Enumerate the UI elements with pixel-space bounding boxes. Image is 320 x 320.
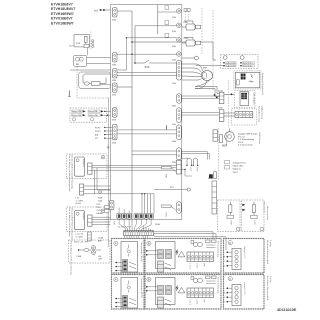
- edge connector y108-122: [177, 108, 182, 123]
- svg-text:B: B: [148, 242, 150, 246]
- wire into demand row2: [196, 65, 223, 67]
- dashed wire from contactor block down: [77, 64, 111, 99]
- svg-text:R2T: R2T: [189, 168, 191, 173]
- option row 2: [112, 275, 272, 310]
- svg-text:Nur für Anlage mit Normaltarif: Nur für Anlage mit Normaltarif: [68, 208, 71, 237]
- right edge circular connector X2A: [177, 23, 182, 28]
- wire with sensor circle y189.5: [154, 187, 190, 191]
- node on bus y42: [131, 41, 133, 43]
- svg-text:X3M: X3M: [112, 65, 116, 67]
- svg-text:X14A: X14A: [98, 237, 104, 240]
- svg-text:K6R: K6R: [165, 213, 167, 218]
- svg-text:Adapter: Adapter: [82, 159, 85, 167]
- svg-text:R8T: R8T: [196, 168, 198, 173]
- connector column below adapter1: [80, 184, 155, 214]
- svg-text:Kühlen X2M: Kühlen X2M: [72, 115, 82, 117]
- svg-text:1 G Steuerleitung: 1 G Steuerleitung: [238, 138, 255, 141]
- mains plug dashed block: [69, 240, 110, 276]
- svg-text:4 G Dauerstrom: 4 G Dauerstrom: [238, 144, 253, 147]
- svg-text:K1M: K1M: [76, 43, 80, 45]
- svg-text:1=Aus 2=Ein: 1=Aus 2=Ein: [226, 65, 236, 68]
- svg-text:K5R: K5R: [165, 174, 167, 179]
- small stub component x69 y91: [68, 91, 71, 97]
- transformer box TR1: [74, 55, 87, 66]
- svg-text:X7M: X7M: [112, 95, 116, 97]
- PE bus x108.3: [107, 98, 109, 247]
- edge connector y95: [177, 94, 182, 103]
- node bus y63: [134, 62, 136, 64]
- wire y25.8: [135, 25, 177, 27]
- relay block K3R dashed: [218, 200, 241, 232]
- svg-text:Nur für Anlage mit Reserveheiz: Nur für Anlage mit Reserveheizung: [70, 241, 73, 276]
- top plugs on dashed boundary: [184, 9, 187, 12]
- sensors R2T R8T: [181, 158, 198, 176]
- LAN adapter dashed block: [234, 91, 255, 108]
- wire thermostat row1 to bus: [104, 110, 111, 112]
- svg-text:F2U: F2U: [97, 207, 101, 209]
- component K5M right of board y37-49: [182, 38, 201, 47]
- svg-text:Netzanschluß Wärmepumpentarif: Netzanschluß Wärmepumpentarif: [71, 208, 74, 241]
- small black connector x209 y174: [209, 174, 213, 178]
- svg-text:K3R: K3R: [230, 221, 232, 226]
- svg-text:F1U: F1U: [97, 204, 101, 206]
- K1M contactor subcircuit top-left: [69, 32, 94, 56]
- svg-text:S1S: S1S: [145, 65, 150, 69]
- bus vertical x132: [131, 11, 133, 222]
- svg-text:P1/P2: P1/P2: [95, 131, 101, 133]
- svg-text:4D113210E: 4D113210E: [277, 308, 297, 312]
- svg-text:digital/analog: digital/analog: [260, 106, 263, 120]
- svg-text:WW-Pumpe: WW-Pumpe: [258, 133, 260, 146]
- svg-text:X11A: X11A: [218, 107, 223, 110]
- svg-text:X13A: X13A: [155, 223, 160, 226]
- bottom option rows: [112, 239, 272, 274]
- svg-text:Nur für Anlage mit Wärmepumpen: Nur für Anlage mit Wärmepumpentarif: [68, 155, 71, 192]
- svg-text:X12A: X12A: [208, 177, 213, 180]
- connector X11A column: [219, 110, 224, 122]
- svg-text:Reserveheizung: Reserveheizung: [217, 241, 220, 258]
- svg-text:1=Aus 2=Ein: 1=Aus 2=Ein: [226, 62, 236, 65]
- wire y75.5: [117, 75, 176, 77]
- tiny labels under connector: [76, 198, 103, 206]
- svg-text:K2M: K2M: [98, 198, 102, 200]
- svg-text:X5M: X5M: [112, 20, 116, 22]
- wire pair y112.5/115: [181, 112, 219, 114]
- edge connector y202-213: [177, 202, 182, 213]
- main PCB A1P outline: [111, 5, 182, 220]
- wire y63.5 outside: [87, 63, 111, 65]
- svg-text:X1M: X1M: [112, 120, 116, 122]
- wire thermostat row2 to bus: [104, 114, 111, 116]
- dashed boundary x228.4: [227, 80, 229, 128]
- wire bundle y150-155: [181, 152, 207, 160]
- connector X5M on left edge: [112, 8, 117, 17]
- 3-way valve component: [220, 133, 229, 147]
- svg-text:Kühlen X8A: Kühlen X8A: [89, 114, 99, 117]
- svg-text:L1 L2: L1 L2: [189, 264, 191, 270]
- adapter1 wire downturns: [96, 168, 98, 190]
- edge connector y125-140: [177, 125, 182, 140]
- right edge circular connector X3A: [177, 38, 182, 43]
- dashed boundary x213: [212, 10, 214, 90]
- tiny connector labels: [112, 16, 223, 229]
- node c/d entry arrows: [94, 8, 111, 12]
- stubs above plug row: [118, 208, 120, 214]
- wire y72.5: [117, 72, 176, 74]
- svg-text:1 2 3 4 5 6 7 8 9: 1 2 3 4 5 6 7 8 9: [118, 227, 132, 229]
- wire adapter1 rows into board: [92, 165, 177, 167]
- wire fan board to X2M: [119, 219, 151, 231]
- svg-text:c/d: c/d: [94, 8, 98, 12]
- svg-text:Zusatzpumpe 3N/PE: Zusatzpumpe 3N/PE: [140, 242, 143, 263]
- ground on bus: [107, 145, 110, 150]
- svg-text:50 Hz: 50 Hz: [76, 203, 81, 205]
- svg-text:C10A: C10A: [76, 255, 82, 258]
- backup heater contactor rounded block: [79, 72, 111, 89]
- svg-text:Max.Druck: Max.Druck: [263, 202, 266, 213]
- svg-text:Niedertarif-Netzanschluß: Niedertarif-Netzanschluß: [266, 240, 269, 265]
- adapter block 1 dashed: [67, 154, 108, 192]
- svg-text:Adapter: Adapter: [82, 213, 85, 221]
- svg-text:ETVH16E6V7: ETVH16E6V7: [51, 2, 73, 6]
- svg-text:230 V: 230 V: [238, 142, 244, 144]
- connector column x87 y232: [88, 232, 92, 241]
- demand PCB dashed block: [221, 54, 258, 68]
- edge connector y148-160: [177, 148, 182, 160]
- svg-text:250V: 250V: [97, 210, 102, 212]
- user interface block: [234, 71, 261, 89]
- switch K6R: [162, 205, 176, 217]
- X2M terminal strip: [124, 231, 154, 236]
- connector stack x174 y160: [177, 160, 182, 174]
- svg-text:2: 2: [224, 266, 225, 268]
- thermostat dashed block: [70, 108, 107, 122]
- svg-text:F1/F2: F1/F2: [95, 127, 101, 129]
- svg-text:A8P: A8P: [98, 239, 102, 242]
- wire y63 with switch S1S: [135, 62, 145, 64]
- svg-text:Niveauwächter: Niveauwächter: [266, 206, 269, 221]
- valve wiring notes area: [225, 161, 246, 174]
- svg-text:Smart Grid 1: Smart Grid 1: [243, 62, 253, 65]
- svg-text:Vorlauf 1 2 3: Vorlauf 1 2 3: [243, 246, 246, 259]
- connector left edge y70: [112, 69, 117, 78]
- svg-text:X4M: X4M: [112, 80, 116, 82]
- svg-text:Heizen X2M: Heizen X2M: [72, 111, 82, 113]
- svg-text:K6R: K6R: [253, 221, 255, 226]
- bottom edge plug row: [117, 213, 154, 219]
- svg-text:L: L: [224, 252, 225, 254]
- relay block K5R dashed: [241, 200, 265, 232]
- bus vertical x135: [134, 26, 136, 63]
- wire X11A to block C: [224, 112, 235, 114]
- svg-text:Signal offen: Signal offen: [233, 166, 244, 168]
- DHW pump motor symbol: [222, 129, 234, 148]
- wires X2M down to row1: [125, 236, 148, 239]
- component K4M right of board y21-34: [182, 21, 201, 30]
- fuse boxes: [104, 206, 109, 209]
- wire bundle X2M to right: [154, 232, 214, 238]
- svg-text:X6M: X6M: [112, 143, 116, 145]
- adapter block 2 dashed: [67, 207, 108, 241]
- F-row labels and wires: [95, 125, 177, 155]
- svg-text:ETVX16E6V7: ETVX16E6V7: [51, 17, 73, 21]
- svg-text:Raumthermostat: Raumthermostat: [258, 106, 261, 123]
- svg-text:ETVX16E9W7: ETVX16E9W7: [51, 21, 74, 25]
- pump motor M1P oval: [182, 64, 213, 81]
- svg-text:LAN-Adapter: LAN-Adapter: [253, 93, 256, 106]
- svg-text:C: C: [229, 241, 231, 245]
- option block B1 pump: [112, 239, 145, 274]
- option block B2 backup heater: [145, 239, 221, 274]
- wire y42 long to demand: [132, 42, 216, 60]
- model list text: [51, 2, 75, 25]
- svg-text:Bedienteil/Schnittstelle: Bedienteil/Schnittstelle: [261, 73, 264, 96]
- wire top row y11: [117, 10, 132, 12]
- left labels near bottom edge: [97, 204, 104, 215]
- right edge multi-pin connector: [177, 61, 182, 81]
- note text Vorgabe WW-Pumpe: [238, 133, 258, 147]
- svg-text:Heizen X8A: Heizen X8A: [89, 110, 99, 113]
- svg-text:X4A: X4A: [98, 199, 102, 202]
- connector x213.6 y172: [214, 172, 217, 179]
- svg-text:2-polig: 2-polig: [269, 240, 271, 247]
- right edge circular connector X4A: [177, 52, 182, 57]
- thermostat interface dashed block C: [232, 109, 257, 125]
- wire pair y95/97.5 from bus to X10A: [181, 95, 219, 97]
- labels below adapter2: [76, 234, 104, 243]
- svg-text:1: 1: [224, 261, 225, 263]
- dashed boundary x218.3: [217, 128, 219, 180]
- wire y37.8: [118, 38, 177, 70]
- svg-text:ETVH16UE6V7: ETVH16UE6V7: [51, 7, 75, 11]
- svg-text:1~ 230V: 1~ 230V: [76, 200, 84, 202]
- svg-text:A: A: [115, 242, 117, 246]
- svg-text:FA10A: FA10A: [97, 212, 104, 215]
- svg-text:K2M: K2M: [184, 38, 188, 40]
- 3-way valve connector stack: [213, 130, 217, 141]
- svg-text:ETVH16E9W7: ETVH16E9W7: [51, 12, 74, 16]
- connector strip x212 y181: [212, 181, 217, 214]
- svg-text:230 V: 230 V: [233, 172, 239, 174]
- right edge circular connector X1A: [177, 9, 182, 14]
- svg-text:Smart Grid 2: Smart Grid 2: [243, 65, 253, 68]
- wire X10A to LAN block: [224, 93, 234, 95]
- svg-text:L1 L2 L3: L1 L2 L3: [76, 234, 85, 236]
- wire y54.2: [117, 53, 177, 55]
- wire TR1 to edge y57.3: [87, 56, 111, 58]
- svg-text:230 V + N + PE: 230 V + N + PE: [74, 242, 89, 244]
- node y95: [214, 94, 216, 96]
- switch K5R: [162, 167, 176, 179]
- connector left edge y204: [109, 200, 114, 209]
- svg-text:K1M: K1M: [184, 22, 188, 24]
- node LAN wire: [231, 93, 233, 95]
- connector left edge y84: [112, 83, 117, 92]
- svg-text:Vorgabe WW-Pumpe: Vorgabe WW-Pumpe: [238, 133, 258, 136]
- svg-text:X10A: X10A: [218, 90, 223, 93]
- dashed boundary x202: [201, 8, 203, 54]
- bus vertical x158: [157, 5, 159, 35]
- svg-text:L3 N: L3 N: [196, 264, 198, 269]
- pressure switch S1PH circle: [195, 56, 199, 60]
- fuse label boxes on wires: [165, 6, 169, 10]
- svg-text:3-Wege-Ventil: 3-Wege-Ventil: [233, 162, 246, 165]
- node y97.5: [216, 97, 218, 99]
- wire y70 extension left: [70, 69, 111, 71]
- svg-text:X2M: X2M: [113, 221, 115, 226]
- wires adapter2: [92, 216, 111, 218]
- svg-text:Netzanschluß Normaltarif bause: Netzanschluß Normaltarif bauseitig: [71, 155, 74, 190]
- svg-text:Signal zu: Signal zu: [233, 169, 241, 171]
- wire y87: [117, 86, 132, 88]
- svg-text:WH: WH: [99, 258, 103, 260]
- svg-text:Pos.ruf: Pos.ruf: [238, 135, 245, 138]
- svg-text:3~ 400V: 3~ 400V: [76, 236, 84, 238]
- connector X3M left edge: [112, 53, 117, 62]
- connector X F-rows tall: [112, 124, 117, 139]
- option block B3 terminal: [224, 239, 272, 274]
- connector left edge y109 thermostat: [112, 108, 117, 117]
- connector X10A column: [219, 92, 224, 104]
- wire bundle y86-88 to right column: [195, 87, 219, 94]
- svg-text:3-Wege-Ventil: 3-Wege-Ventil: [225, 133, 228, 147]
